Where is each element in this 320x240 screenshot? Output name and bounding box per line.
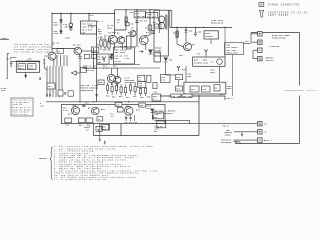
svg-text:R29: R29	[154, 91, 158, 93]
resistor band r5	[125, 88, 127, 93]
svg-text:R2: R2	[58, 51, 60, 53]
capacitor C1A branch	[69, 13, 72, 31]
svg-text:R33: R33	[176, 77, 180, 79]
svg-text:R45: R45	[116, 104, 120, 107]
capacitor C9	[78, 54, 82, 58]
svg-text:REG +15V: REG +15V	[115, 51, 126, 54]
wire left rail	[52, 13, 76, 48]
svg-text:1N3046: 1N3046	[205, 35, 214, 38]
svg-text:R64: R64	[140, 96, 144, 99]
svg-text:12. T1 primary wired for 115 V: 12. T1 primary wired for 115 VAC.	[54, 178, 108, 181]
resistor ladder R12	[104, 41, 106, 47]
resistor band stubs	[108, 82, 146, 96]
box REG	[193, 57, 225, 66]
svg-text:450V: 450V	[107, 26, 113, 29]
svg-text:+15: +15	[40, 106, 44, 108]
svg-text:C20: C20	[198, 31, 202, 33]
ground Q	[99, 139, 102, 141]
arrow left connector	[71, 71, 76, 75]
wire ladder stubs	[101, 36, 109, 50]
svg-text:for ratings of both supplies: for ratings of both supplies	[14, 50, 57, 53]
relay box K1	[184, 82, 226, 94]
resistor band r8	[140, 89, 142, 94]
wires reg to relay	[178, 66, 219, 86]
svg-text:R30: R30	[173, 32, 177, 34]
resistor R28	[153, 82, 157, 88]
resistor R19	[147, 75, 151, 82]
svg-text:CR3: CR3	[145, 27, 149, 29]
resistor band r6	[130, 85, 132, 90]
bottom bus	[46, 101, 199, 103]
svg-text:TB1-A: TB1-A	[227, 97, 234, 100]
label box C30	[171, 94, 181, 98]
bottom box	[61, 105, 165, 124]
junction dots	[11, 61, 12, 62]
svg-text:C16: C16	[85, 103, 89, 105]
transistor Q11	[92, 107, 100, 115]
right panel top edge	[251, 32, 300, 34]
+150 bus	[170, 26, 232, 28]
wire divider	[97, 64, 140, 66]
svg-text:100: 100	[161, 80, 165, 82]
svg-text:TP5: TP5	[179, 55, 183, 57]
resistor R25	[91, 55, 96, 59]
svg-text:2.2K: 2.2K	[63, 110, 69, 112]
label box R60	[182, 94, 192, 98]
capacitor box C23	[161, 75, 171, 83]
diode CR9	[185, 27, 187, 38]
transistor Q6	[48, 52, 56, 60]
svg-text:6.8K: 6.8K	[125, 58, 131, 60]
svg-text:.01: .01	[110, 116, 114, 118]
svg-text:C8 40: C8 40	[98, 58, 104, 61]
svg-text:R41: R41	[65, 124, 69, 127]
zener CR15	[151, 111, 155, 113]
transformer T1 windings	[158, 16, 164, 22]
relay box F1B	[80, 21, 96, 34]
transistor Q2	[117, 37, 124, 44]
junction dots group	[51, 9, 225, 124]
svg-text:680: 680	[102, 129, 106, 131]
relay K1 contact a	[190, 86, 199, 92]
resistor R2 box	[57, 49, 64, 54]
svg-text:+15V ADJ: +15V ADJ	[135, 15, 146, 18]
capacitor C5A bars	[151, 30, 155, 31]
wire reg drop	[206, 39, 225, 57]
svg-text:C22: C22	[133, 96, 137, 98]
wire bundle upper	[57, 55, 67, 66]
svg-text:NOTES:: NOTES:	[39, 157, 48, 160]
test point Y2	[177, 66, 180, 71]
wire pair right of transformer	[168, 10, 172, 27]
svg-text:(15.1V): (15.1V)	[147, 16, 156, 19]
svg-text:C21: C21	[126, 97, 130, 99]
box battery cell 1	[18, 64, 26, 70]
svg-text:C13: C13	[129, 122, 133, 124]
arrow	[139, 51, 143, 53]
left marks bottom block	[152, 115, 154, 120]
svg-text:115V: 115V	[155, 52, 161, 55]
capacitor row under Q12	[125, 115, 135, 121]
transistor Q12	[124, 107, 133, 116]
svg-text:+ OUTPUT: + OUTPUT	[269, 45, 281, 48]
svg-text:SHUTDOWN: SHUTDOWN	[221, 142, 231, 144]
svg-text:Q5 A5T: Q5 A5T	[73, 44, 82, 47]
transistor Q21	[184, 43, 192, 51]
screw terminal 3	[258, 48, 263, 52]
diode CR2	[60, 31, 63, 34]
wire Q4 branch	[149, 10, 151, 35]
svg-text:RET: RET	[154, 131, 158, 133]
transistor Q1	[108, 35, 117, 44]
svg-text:C6: C6	[131, 23, 134, 25]
svg-text:K2: K2	[215, 88, 218, 90]
svg-text:TP6: TP6	[197, 53, 201, 55]
box A2	[154, 52, 160, 62]
svg-text:SENSE: SENSE	[225, 135, 231, 137]
svg-text:R49: R49	[134, 121, 138, 124]
screw terminal 4	[258, 57, 263, 61]
svg-text:500: 500	[188, 76, 192, 78]
screw terminal 2	[258, 40, 263, 44]
resistor row c	[86, 118, 93, 123]
box battery cell 2	[27, 64, 36, 70]
NOTES brace	[50, 147, 53, 180]
svg-text:REG: REG	[153, 117, 157, 119]
diode CR6	[149, 53, 153, 55]
box bundle b	[58, 90, 63, 96]
svg-text:C30 1000: C30 1000	[172, 96, 182, 98]
inner box left edge	[88, 26, 97, 102]
svg-text:this circuit: this circuit	[12, 114, 28, 116]
diode CR8	[164, 62, 176, 75]
capacitor C7	[110, 54, 113, 60]
terminal block TB3 box	[225, 43, 244, 55]
resistor ladder R13	[108, 42, 110, 48]
svg-text:TEST POINT: TEST POINT	[268, 14, 289, 17]
svg-text:COIL: COIL	[227, 87, 233, 90]
svg-text:250: 250	[138, 86, 142, 88]
box reg bottom	[152, 112, 163, 119]
resistor R16	[98, 80, 104, 85]
svg-text:R9 470: R9 470	[140, 19, 148, 22]
svg-text:R46: R46	[140, 104, 144, 107]
svg-text:1N91: 1N91	[210, 72, 215, 74]
transformer T1 box	[154, 10, 168, 56]
box TM1B	[138, 81, 146, 87]
line y=96	[161, 96, 225, 100]
capacitor C15 top	[82, 105, 85, 107]
ground arrow center	[95, 94, 98, 98]
component box C15	[96, 126, 102, 131]
box below edge left	[102, 124, 110, 130]
svg-text:115VAC: 115VAC	[1, 37, 8, 40]
svg-text:R42: R42	[79, 124, 83, 127]
left bracket	[6, 53, 9, 78]
resistor R33	[176, 75, 183, 80]
svg-text:SUPPLY: SUPPLY	[266, 59, 275, 62]
svg-text:+150: +150	[65, 36, 71, 39]
svg-text:TM7: TM7	[130, 12, 134, 14]
svg-text:Q11: Q11	[88, 108, 92, 110]
svg-text:C10 40: C10 40	[115, 54, 123, 57]
box TM small	[91, 47, 99, 53]
svg-text:R65: R65	[147, 96, 151, 98]
wires below box	[94, 124, 109, 139]
screw terminal 5	[258, 122, 263, 126]
svg-text:SCREW CONNECTOR: SCREW CONNECTOR	[268, 3, 300, 6]
resistor R6	[125, 17, 128, 22]
relay K1 contact b	[202, 86, 211, 92]
wire Q5 to box	[82, 50, 97, 52]
wide box R52	[114, 47, 135, 64]
wire long drop	[79, 58, 81, 102]
zener CR5	[110, 57, 113, 60]
wire stub	[88, 13, 90, 21]
svg-text:+24 V: +24 V	[220, 93, 227, 96]
resistor R34	[176, 86, 183, 91]
svg-text:VDC: VDC	[27, 60, 32, 63]
screw terminal 6	[258, 130, 263, 134]
svg-text:+24V: +24V	[1, 89, 7, 92]
transistor Q10	[72, 107, 80, 115]
resistor row b	[78, 118, 85, 123]
svg-text:WHT: WHT	[82, 31, 87, 34]
top small box left of y96 line	[152, 94, 161, 101]
svg-text:A +: A +	[153, 98, 157, 101]
resistor R24	[84, 55, 89, 59]
screw terminal 1	[258, 32, 263, 36]
svg-text:Q12: Q12	[126, 105, 130, 107]
svg-text:BATT +: BATT +	[264, 139, 273, 142]
svg-text:CONTROL CIRCUIT: CONTROL CIRCUIT	[154, 113, 174, 115]
resistor R51 box	[97, 117, 103, 122]
wire C5 branch	[135, 10, 138, 46]
svg-text:PROGRAMMER SUPPLY: PROGRAMMER SUPPLY	[285, 89, 319, 92]
test point box TP3	[134, 11, 145, 18]
svg-text:Q1 A5T: Q1 A5T	[109, 31, 117, 34]
resistor R44	[117, 108, 123, 113]
wire to main	[244, 43, 252, 45]
svg-text:R60 100: R60 100	[183, 96, 192, 98]
resistor row a	[65, 118, 72, 123]
ground small	[104, 141, 106, 144]
svg-text:CR8: CR8	[169, 59, 173, 61]
resistor band r7	[134, 87, 136, 92]
note box	[11, 98, 33, 116]
svg-text:R63: R63	[119, 96, 123, 98]
ground tick b	[235, 140, 237, 143]
svg-text:BATT: BATT	[19, 67, 25, 70]
box TM1A	[138, 75, 145, 81]
resistor band r3	[116, 86, 118, 91]
transistor Q5	[74, 47, 82, 55]
line y=120.3	[155, 120, 190, 123]
svg-text:REGULATOR: REGULATOR	[211, 22, 224, 25]
svg-text:BATT: BATT	[28, 67, 34, 70]
transistor Q4	[139, 36, 148, 45]
svg-text:TM-7: TM-7	[98, 56, 103, 58]
svg-text:R11: R11	[97, 44, 101, 46]
legend test point	[259, 10, 264, 17]
svg-text:+24V: +24V	[203, 62, 209, 65]
right panel right edge	[299, 33, 301, 144]
terminal leads	[251, 33, 258, 59]
resistor R7	[125, 22, 129, 25]
svg-text:600V: 600V	[54, 24, 60, 26]
resistor band r9	[145, 88, 147, 93]
svg-text:24V RELAY: 24V RELAY	[227, 46, 239, 49]
diode CR1	[60, 20, 63, 23]
arrow battery down	[25, 72, 27, 77]
svg-text:TP8: TP8	[245, 41, 249, 43]
svg-text:R13: R13	[107, 40, 111, 42]
svg-text:CONNECTION: CONNECTION	[81, 90, 94, 92]
svg-text:R48: R48	[136, 109, 140, 112]
relay K1 contact c	[214, 85, 220, 91]
diode CR string vertical	[60, 13, 62, 33]
svg-text:4.7K: 4.7K	[103, 67, 109, 70]
wire Q7 Q8 stubs	[82, 68, 160, 87]
svg-text:R32: R32	[182, 69, 186, 71]
box bias	[97, 54, 109, 64]
label T1	[155, 24, 161, 28]
box bundle a	[47, 83, 55, 89]
wire top bus left	[52, 10, 160, 14]
wire bus to TB3	[225, 27, 233, 96]
svg-text:R15 1K: R15 1K	[103, 49, 111, 51]
ground tick a	[241, 132, 243, 136]
svg-text:R62: R62	[112, 97, 116, 99]
resistor band r4	[120, 87, 122, 92]
regulator box A1	[126, 36, 131, 49]
svg-text:TB1-B: TB1-B	[223, 126, 230, 128]
svg-text:TM 2A: TM 2A	[115, 60, 122, 63]
test point Y1	[205, 50, 208, 55]
resistor band r2	[111, 87, 113, 92]
svg-text:C3 .1: C3 .1	[97, 21, 103, 23]
test point Y3	[103, 57, 106, 63]
svg-text:2N3055: 2N3055	[194, 62, 203, 65]
box below edge right	[157, 121, 166, 128]
svg-text:Q10: Q10	[73, 105, 77, 107]
node jog	[115, 10, 126, 30]
resistor R8	[148, 25, 152, 30]
line y=123.6	[152, 123, 258, 125]
resistor band r1	[107, 85, 109, 90]
svg-text:C12: C12	[124, 122, 128, 124]
resistor R30	[176, 27, 178, 31]
tick right	[39, 77, 40, 79]
test point box TP4	[146, 12, 158, 18]
svg-text:R61: R61	[106, 95, 110, 97]
svg-text:CR9: CR9	[189, 30, 193, 32]
terminal leads lower	[234, 132, 258, 140]
svg-text:2.2K: 2.2K	[113, 68, 119, 70]
label left edge top	[0, 39, 9, 41]
transistor Q7	[107, 74, 115, 82]
svg-text:PARALLELED: PARALLELED	[272, 36, 286, 39]
right panel bottom edge	[236, 143, 300, 145]
svg-text:Q21: Q21	[192, 44, 196, 46]
wire Q1 drop	[114, 13, 116, 34]
resistor ladder R11	[100, 40, 102, 46]
svg-text:supplies: supplies	[12, 104, 23, 106]
box battery outer	[16, 61, 39, 72]
svg-text:.05/600: .05/600	[63, 25, 73, 28]
wire bundle lower	[47, 66, 62, 97]
lamp R2	[69, 23, 72, 26]
svg-text:R27: R27	[48, 86, 52, 88]
screw terminal 7	[258, 138, 263, 142]
capacitor C20	[194, 27, 197, 36]
svg-text:600V: 600V	[54, 33, 60, 35]
svg-text:ADJ VOLT: ADJ VOLT	[227, 49, 238, 52]
arrowheads bundle	[46, 93, 66, 98]
NOTES lines	[54, 145, 158, 181]
long line bottom	[94, 96, 200, 136]
svg-text:REGULATOR: REGULATOR	[227, 51, 239, 54]
transistor Q3a	[130, 31, 136, 37]
svg-text:1N91: 1N91	[146, 108, 151, 110]
legend screw connector	[259, 2, 264, 6]
label box on bus a	[115, 103, 122, 107]
battery bus	[10, 61, 40, 63]
box bundle c	[68, 91, 74, 96]
svg-text:R53: R53	[121, 37, 125, 39]
label box on bus b	[139, 103, 146, 107]
box TM7A	[81, 67, 87, 72]
transistor Q8	[114, 76, 121, 83]
battery symbol	[10, 62, 13, 67]
svg-text:470: 470	[68, 112, 72, 115]
svg-text:.05: .05	[85, 130, 89, 132]
svg-text:R5 8.2K: R5 8.2K	[104, 34, 114, 37]
box +150 reg	[204, 31, 218, 39]
